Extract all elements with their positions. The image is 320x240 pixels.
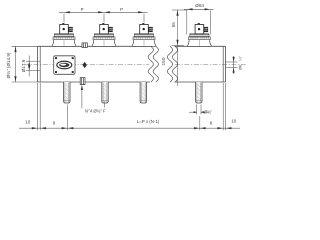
top plug fitting <box>82 43 87 48</box>
manifold body left fragment <box>38 46 150 82</box>
svg-text:Ø8: Ø8 <box>239 65 243 70</box>
valve V4 <box>188 23 212 46</box>
dia 64 dimension <box>184 9 214 34</box>
svg-text:Ø¾" (Ø14.9): Ø¾" (Ø14.9) <box>6 52 11 78</box>
svg-text:¼": ¼" <box>239 56 243 61</box>
svg-text:10: 10 <box>25 119 31 124</box>
svg-text:Ø¾": Ø¾" <box>204 110 213 115</box>
leg B2 <box>102 82 108 103</box>
right end port bore lines <box>226 56 238 74</box>
svg-text:55: 55 <box>171 22 176 28</box>
logo ellipse <box>57 61 72 69</box>
bottom dimension chain line <box>19 127 240 129</box>
centerline right <box>175 63 247 65</box>
55 dimension <box>172 10 188 86</box>
svg-text:Ø64: Ø64 <box>195 3 204 8</box>
leader to bottom plug <box>81 86 83 108</box>
svg-text:P: P <box>120 7 123 12</box>
leg B4 <box>196 82 202 103</box>
valve V1 <box>52 23 76 46</box>
dia 3/4 leg label <box>189 105 209 115</box>
svg-text:10: 10 <box>231 119 237 124</box>
dia 17.9 bore dimension <box>26 56 40 77</box>
break wavy lines <box>148 46 178 82</box>
valve V3 <box>132 23 156 46</box>
svg-text:L=P x (N-1): L=P x (N-1) <box>137 119 160 124</box>
bottom extension lines <box>38 83 226 130</box>
bottom dim arrows <box>32 127 232 129</box>
bottom plug fitting <box>80 78 85 85</box>
dia 3/4 (dia 14.9) end port dimension <box>12 46 38 82</box>
svg-text:P: P <box>81 7 84 12</box>
svg-text:8: 8 <box>210 121 213 126</box>
manifold body right fragment <box>175 46 226 82</box>
leg B3 <box>140 82 146 103</box>
centerline <box>24 63 149 65</box>
svg-text:N°4 Ø¾" F: N°4 Ø¾" F <box>85 108 106 113</box>
valve V2 <box>92 23 116 46</box>
P dimension line <box>59 12 148 22</box>
side port diamond <box>82 62 87 68</box>
svg-text:Ø17.9: Ø17.9 <box>21 59 26 72</box>
leg B1 <box>64 82 70 103</box>
svg-text:8: 8 <box>53 121 56 126</box>
leader to leg B2 <box>104 102 106 108</box>
svg-text:150: 150 <box>161 57 167 65</box>
P dim arrows <box>64 11 144 13</box>
nameplate <box>54 56 75 75</box>
